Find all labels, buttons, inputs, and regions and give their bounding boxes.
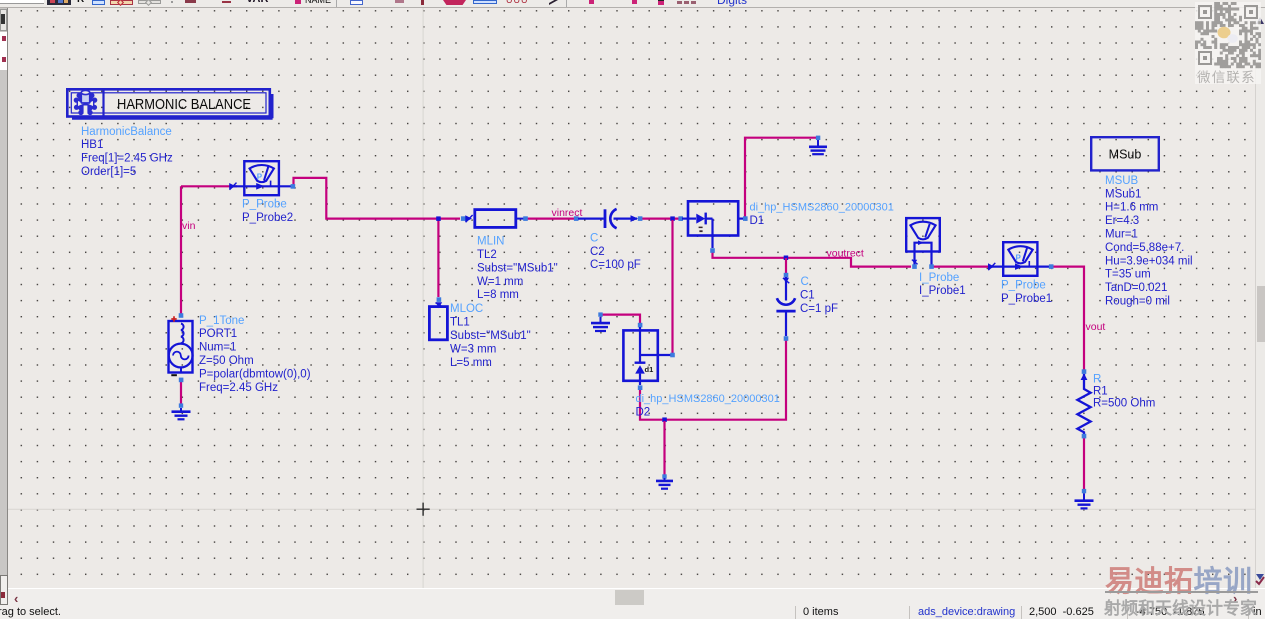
wire PORT1 to ground bbox=[180, 382, 182, 404]
C2 labels bbox=[590, 232, 641, 271]
D1 labels bbox=[750, 201, 894, 226]
bottom scrollbar row bbox=[0, 588, 1265, 606]
wire D1 cathode up to ground bbox=[745, 138, 817, 219]
wire P_Probe2 output to main line bbox=[294, 178, 461, 219]
wire MLIN to C2 bbox=[527, 218, 681, 220]
P_Probe1 P letter bbox=[1016, 254, 1022, 263]
wire vinrect down to D2 right pin bbox=[671, 220, 673, 355]
C1 labels bbox=[800, 276, 838, 315]
svg-text:H=1.6 mm: H=1.6 mm bbox=[1105, 202, 1158, 214]
status bar bbox=[0, 606, 1265, 619]
right scrollbar bbox=[1255, 8, 1265, 588]
P_Probe2 labels bbox=[242, 199, 293, 224]
svg-text:Num=1: Num=1 bbox=[199, 342, 236, 354]
ground G3 at D2 bbox=[591, 312, 610, 331]
svg-text:TL1: TL1 bbox=[450, 317, 470, 329]
P_Probe1 labels bbox=[1001, 280, 1052, 305]
wire vin vertical to PORT1 bbox=[180, 186, 182, 314]
page boundary horizontal line bbox=[8, 508, 1255, 510]
P_Probe1 power probe bbox=[988, 242, 1054, 276]
C1 shunt capacitor bbox=[776, 273, 795, 341]
PORT1 minus mark bbox=[171, 374, 177, 376]
MLOC TL1 labels bbox=[450, 303, 531, 369]
wire I_Probe1 to P_Probe1 bbox=[934, 266, 989, 268]
MLIN TL2 microstrip line bbox=[461, 210, 528, 228]
svg-text:Order[1]=5: Order[1]=5 bbox=[81, 166, 136, 178]
svg-text:P_Probe1: P_Probe1 bbox=[1001, 293, 1052, 305]
svg-text:MLOC: MLOC bbox=[450, 303, 483, 315]
svg-text:P: P bbox=[257, 173, 263, 182]
PORT1 plus mark bbox=[171, 316, 176, 321]
svg-text:Rough=0 mil: Rough=0 mil bbox=[1105, 296, 1170, 308]
svg-text:I_Probe1: I_Probe1 bbox=[919, 285, 966, 297]
QR watermark top-right bbox=[1195, 2, 1261, 97]
wire C1 bottom / D2 bottom to ground run bbox=[640, 341, 786, 420]
PORT1 P_1Tone source bbox=[169, 313, 193, 382]
svg-text:HarmonicBalance: HarmonicBalance bbox=[81, 126, 172, 138]
left panel sliver bbox=[0, 8, 8, 606]
svg-text:C1: C1 bbox=[800, 290, 815, 302]
svg-text:C: C bbox=[590, 232, 598, 244]
svg-text:HARMONIC BALANCE: HARMONIC BALANCE bbox=[117, 96, 251, 113]
net label vout bbox=[1086, 321, 1106, 333]
svg-text:vout: vout bbox=[1086, 321, 1106, 333]
net label vinrect bbox=[552, 207, 583, 219]
svg-text:T=35 um: T=35 um bbox=[1105, 269, 1151, 281]
svg-text:di_hp_HSMS2860_20000301: di_hp_HSMS2860_20000301 bbox=[636, 393, 780, 405]
wire junction to MLIN bbox=[437, 219, 439, 297]
svg-text:Freq[1]=2.45 GHz: Freq[1]=2.45 GHz bbox=[81, 153, 173, 165]
PORT1 labels bbox=[199, 315, 311, 394]
net label voutrect bbox=[827, 248, 864, 260]
P_Probe2 P letter bbox=[257, 173, 263, 182]
svg-text:D2: D2 bbox=[636, 407, 651, 419]
svg-text:C2: C2 bbox=[590, 246, 605, 258]
svg-text:HB1: HB1 bbox=[81, 139, 103, 151]
svg-text:P_Probe: P_Probe bbox=[1001, 280, 1046, 292]
wire ground to D2 anode link bbox=[602, 315, 640, 323]
svg-text:R1: R1 bbox=[1093, 385, 1108, 397]
MSUB labels bbox=[1105, 175, 1193, 308]
svg-text:I_Probe: I_Probe bbox=[919, 272, 959, 284]
junction node at C1 bbox=[784, 256, 789, 261]
svg-text:Mur=1: Mur=1 bbox=[1105, 229, 1138, 241]
svg-text:d1: d1 bbox=[645, 365, 654, 374]
diode D2 HSMS2860 bbox=[623, 323, 674, 390]
wire C1 top lead connection bbox=[785, 258, 787, 273]
D2 labels bbox=[636, 393, 780, 418]
svg-text:Z=50 Ohm: Z=50 Ohm bbox=[199, 355, 254, 367]
HARMONIC BALANCE title text bbox=[117, 96, 251, 113]
ground G4 below D2 bbox=[656, 474, 673, 488]
resistor R1 bbox=[1077, 369, 1090, 438]
svg-text:voutrect: voutrect bbox=[827, 248, 864, 260]
svg-text:P_Probe2: P_Probe2 bbox=[242, 212, 293, 224]
svg-text:R: R bbox=[1093, 373, 1101, 385]
svg-text:L=8 mm: L=8 mm bbox=[477, 289, 519, 301]
svg-text:di_hp_HSMS2860_20000301: di_hp_HSMS2860_20000301 bbox=[750, 201, 894, 213]
wire R1 to ground bbox=[1083, 438, 1085, 491]
svg-text:微信联系: 微信联系 bbox=[1197, 70, 1256, 85]
svg-text:Subst="MSub1": Subst="MSub1" bbox=[450, 330, 531, 342]
svg-text:P=polar(dbmtow(0),0): P=polar(dbmtow(0),0) bbox=[199, 368, 311, 380]
wire vin horizontal to P_Probe2 bbox=[181, 185, 237, 187]
svg-text:R=500 Ohm: R=500 Ohm bbox=[1093, 397, 1155, 409]
ground G2 below PORT1 bbox=[172, 403, 191, 419]
svg-text:MSub: MSub bbox=[1109, 148, 1142, 162]
I_Probe1 current probe bbox=[906, 218, 940, 269]
P_Probe2 power probe bbox=[229, 161, 295, 195]
page boundary vertical line bbox=[422, 8, 424, 588]
wire down to ground G4 bbox=[663, 421, 665, 475]
svg-text:Hu=3.9e+034 mil: Hu=3.9e+034 mil bbox=[1105, 255, 1193, 267]
svg-text:TanD=0.021: TanD=0.021 bbox=[1105, 282, 1167, 294]
origin crosshair bbox=[417, 503, 430, 516]
svg-text:L=5 mm: L=5 mm bbox=[450, 357, 492, 369]
toolbar strip (cut off at top) bbox=[0, 0, 1265, 8]
svg-text:D1: D1 bbox=[750, 215, 765, 227]
svg-text:Er=4.3: Er=4.3 bbox=[1105, 215, 1139, 227]
I_Probe1 labels bbox=[919, 272, 966, 297]
svg-text:P_1Tone: P_1Tone bbox=[199, 315, 244, 327]
wire P_Probe1 to R1 / vout bbox=[1052, 267, 1084, 370]
D1 internal tiny marks bbox=[699, 227, 703, 233]
junction node at ground branch bbox=[662, 417, 667, 422]
svg-text:C=100 pF: C=100 pF bbox=[590, 259, 641, 271]
junction node at MLOC branch bbox=[436, 216, 441, 221]
svg-text:Subst="MSub1": Subst="MSub1" bbox=[477, 262, 558, 274]
wire D1 bottom to voutrect run bbox=[713, 251, 912, 267]
svg-text:Cond=5.88e+7.: Cond=5.88e+7. bbox=[1105, 242, 1184, 254]
MSub box text bbox=[1109, 148, 1142, 162]
svg-text:MSUB: MSUB bbox=[1105, 175, 1139, 187]
diode D1 HSMS2860 bbox=[678, 201, 747, 253]
svg-text:MSub1: MSub1 bbox=[1105, 188, 1141, 200]
svg-text:PORT1: PORT1 bbox=[199, 328, 237, 340]
svg-text:C=1 pF: C=1 pF bbox=[800, 303, 838, 315]
HARMONIC BALANCE controller HB1 bbox=[67, 89, 272, 118]
svg-text:P: P bbox=[1016, 254, 1022, 263]
net label vin bbox=[182, 220, 196, 232]
C2 series capacitor bbox=[574, 209, 642, 228]
junction node vinrect / D2 branch bbox=[670, 216, 675, 221]
MLIN TL2 labels bbox=[477, 236, 558, 302]
MLOC TL1 open stub bbox=[429, 297, 447, 340]
red watermark bottom-right bbox=[1100, 558, 1265, 619]
ground G1 top right bbox=[809, 136, 827, 155]
svg-text:W=1 mm: W=1 mm bbox=[477, 276, 523, 288]
svg-text:TL2: TL2 bbox=[477, 249, 497, 261]
svg-text:MLIN: MLIN bbox=[477, 236, 504, 248]
svg-text:C: C bbox=[801, 276, 809, 288]
ground G5 below R1 bbox=[1075, 489, 1094, 509]
svg-text:Freq=2.45 GHz: Freq=2.45 GHz bbox=[199, 382, 278, 394]
svg-text:vin: vin bbox=[182, 220, 196, 232]
MSub substrate box bbox=[1091, 137, 1159, 170]
HB1 parameter labels bbox=[81, 126, 173, 178]
R1 labels bbox=[1093, 373, 1155, 409]
D2 internal tiny label d1 bbox=[645, 365, 654, 374]
svg-text:P_Probe: P_Probe bbox=[242, 199, 287, 211]
svg-text:W=3 mm: W=3 mm bbox=[450, 343, 496, 355]
